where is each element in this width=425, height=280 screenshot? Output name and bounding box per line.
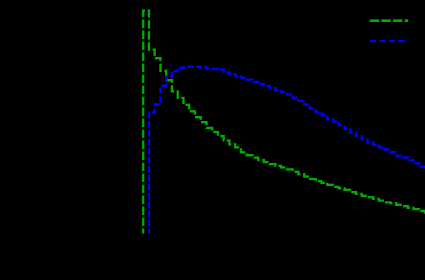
green stepped curve xyxy=(143,11,425,234)
legend blue dashed sample xyxy=(370,40,405,42)
legend green dashed sample xyxy=(370,19,408,22)
blue stepped curve xyxy=(149,67,425,234)
